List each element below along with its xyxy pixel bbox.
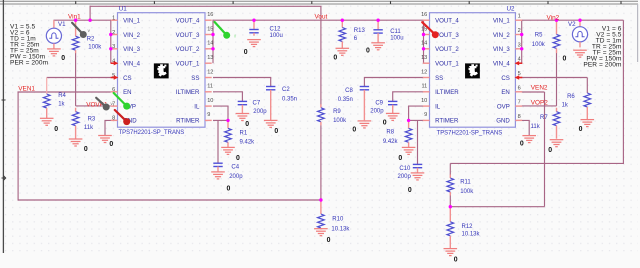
- svg-text:CS: CS: [501, 75, 509, 82]
- svg-text:R6: R6: [567, 94, 575, 100]
- svg-text:TPS7H2201-SP_TRANS: TPS7H2201-SP_TRANS: [437, 130, 503, 136]
- wire C4 tap: [217, 120, 219, 163]
- junction Vout C11: [376, 19, 379, 22]
- svg-text:VEN2: VEN2: [531, 85, 548, 92]
- svg-text:GND: GND: [496, 118, 510, 125]
- junction U2 EN divider node: [449, 205, 452, 208]
- wire U1 GND pin to ground: [105, 120, 118, 135]
- wire R11 R12 node to EN riser: [450, 206, 544, 208]
- svg-text:VOUT_3: VOUT_3: [176, 32, 200, 39]
- resistor R3: [72, 108, 79, 139]
- page frame left line: [2, 0, 4, 253]
- svg-text:ILTIMER: ILTIMER: [176, 89, 200, 96]
- resistor R4 bottom lead: [46, 108, 48, 118]
- page frame right partial line: [637, 4, 639, 62]
- V1 source parameter text block: [10, 23, 49, 66]
- svg-text:V2: V2: [568, 21, 576, 28]
- svg-text:VOUT_4: VOUT_4: [435, 18, 459, 25]
- svg-text:R10: R10: [332, 217, 344, 223]
- svg-text:0: 0: [244, 49, 248, 56]
- ground below C11: [366, 43, 385, 55]
- voltage probe at U2 VOUT_3: [422, 22, 439, 38]
- svg-text:100k: 100k: [460, 189, 474, 195]
- svg-text:V1: V1: [58, 21, 66, 28]
- op-amp U1 TPS7H2201-SP load switch: [111, 6, 214, 128]
- ground below V2: [563, 50, 587, 62]
- voltage source V2 symbol: [568, 20, 588, 47]
- svg-text:VIN_3: VIN_3: [493, 46, 511, 53]
- ground below V1: [47, 49, 65, 62]
- wire Vin2 drop right side: [622, 20, 624, 164]
- capacitor C7: [238, 101, 247, 113]
- resistor R7: [553, 108, 560, 139]
- capacitor C11: [373, 21, 382, 43]
- svg-text:8: 8: [112, 116, 115, 122]
- svg-text:0: 0: [333, 54, 337, 61]
- resistor R12: [447, 207, 454, 249]
- svg-text:i: i: [235, 34, 236, 39]
- svg-text:C10: C10: [399, 166, 411, 172]
- svg-text:EN: EN: [501, 89, 509, 96]
- svg-text:R11: R11: [460, 180, 471, 186]
- svg-text:R2: R2: [87, 36, 95, 42]
- svg-text:10: 10: [207, 98, 213, 104]
- svg-text:16: 16: [207, 12, 213, 18]
- resistor R6 bottom lead: [586, 107, 588, 120]
- ground below C7: [236, 114, 250, 129]
- svg-text:Vin2: Vin2: [547, 14, 560, 21]
- wire R11 column lower: [449, 196, 451, 208]
- ground below C10: [408, 173, 424, 194]
- resistor R13: [339, 21, 346, 49]
- svg-text:1k: 1k: [562, 102, 569, 108]
- current marker at U2 pin CS: [515, 75, 523, 79]
- svg-text:RTIMER: RTIMER: [176, 118, 200, 125]
- voltage probe at VOVP1: [96, 98, 113, 111]
- svg-text:1: 1: [518, 14, 521, 20]
- svg-text:0: 0: [520, 140, 524, 147]
- svg-text:C9: C9: [375, 101, 383, 107]
- svg-text:12: 12: [421, 69, 427, 75]
- svg-text:0: 0: [548, 147, 552, 154]
- ground below R4: [40, 118, 58, 133]
- junction U2 VIN bus pin2: [520, 33, 523, 36]
- svg-text:0: 0: [398, 155, 402, 162]
- svg-text:14: 14: [207, 41, 213, 47]
- current marker at U1 pin CS: [111, 75, 119, 79]
- wire Vin1 horizontal: [54, 19, 111, 21]
- wire R9 column vertical lower: [320, 125, 322, 200]
- svg-text:ILTIMER: ILTIMER: [435, 89, 459, 96]
- ground below C8: [352, 121, 371, 133]
- junction U1 RTIMER IL node: [226, 119, 229, 122]
- ground below R6: [579, 120, 595, 134]
- current marker at U1 pin VIN_4: [111, 61, 119, 65]
- svg-text:1: 1: [112, 16, 115, 22]
- resistor R5: [553, 20, 560, 53]
- svg-text:CS: CS: [123, 75, 131, 82]
- svg-text:U1: U1: [119, 6, 128, 13]
- svg-text:0: 0: [84, 146, 88, 153]
- svg-text:0: 0: [109, 141, 113, 148]
- svg-text:EN: EN: [123, 89, 131, 96]
- wire U2 GND pin to ground: [515, 120, 529, 135]
- svg-text:C4: C4: [231, 165, 239, 171]
- ground below C9: [383, 113, 400, 126]
- junction Vin1 riser: [88, 19, 91, 22]
- svg-text:12: 12: [207, 69, 213, 75]
- svg-text:VIN_2: VIN_2: [493, 32, 511, 39]
- svg-text:0.35n: 0.35n: [282, 96, 297, 102]
- svg-text:SS: SS: [191, 75, 199, 82]
- capacitor C2: [266, 87, 275, 121]
- wire VEN1 horizontal: [17, 91, 110, 93]
- svg-text:11: 11: [207, 84, 213, 90]
- ground at U1 GND pin: [98, 136, 113, 149]
- svg-text:C12: C12: [270, 27, 282, 33]
- frame tick marks: [2, 1, 622, 180]
- resistor R11: [447, 175, 454, 196]
- svg-text:VOP2: VOP2: [531, 100, 548, 107]
- svg-text:13: 13: [421, 55, 427, 61]
- junction Vin1 R2: [74, 19, 77, 22]
- wire EN divider tap long bottom: [18, 199, 321, 201]
- svg-text:RTIMER: RTIMER: [435, 118, 459, 125]
- ground below R8: [398, 147, 415, 162]
- svg-text:PER = 200m: PER = 200m: [10, 59, 49, 66]
- wire VOVP1: [76, 105, 111, 107]
- svg-text:VIN_4: VIN_4: [123, 61, 141, 68]
- svg-text:8: 8: [518, 114, 521, 120]
- svg-text:R5: R5: [535, 33, 543, 39]
- junction Vin2 V2: [578, 19, 581, 22]
- svg-text:IL: IL: [435, 103, 441, 110]
- ground below C2: [264, 120, 279, 135]
- svg-text:R8: R8: [386, 130, 394, 136]
- svg-text:11k: 11k: [84, 125, 94, 131]
- capacitor C8: [360, 87, 369, 121]
- svg-text:R9: R9: [333, 109, 341, 115]
- wire VEN1 drop: [17, 92, 19, 201]
- wire U2 EN divider feed: [450, 162, 624, 164]
- svg-text:OVP: OVP: [497, 103, 510, 110]
- wire R9 column vertical upper: [320, 6, 322, 104]
- wire U2 VOUT pin bus: [423, 20, 425, 64]
- svg-text:0: 0: [274, 128, 278, 135]
- wire R11 column upper: [449, 163, 451, 174]
- svg-text:0: 0: [563, 55, 567, 62]
- wire R5 bottom to VOP2: [556, 53, 558, 106]
- svg-text:200p: 200p: [253, 109, 267, 115]
- wire U2 VIN pin bus: [521, 20, 523, 64]
- wire R6 drop from CS: [586, 78, 588, 94]
- current marker at U2 pin VIN_4: [515, 61, 523, 65]
- junction Vout C12: [252, 19, 255, 22]
- V2 source parameter text block: [583, 25, 622, 68]
- wire U2 EN riser: [544, 92, 546, 207]
- junction U2 RTIMER IL node: [407, 119, 410, 122]
- svg-text:11: 11: [421, 84, 427, 90]
- svg-text:3: 3: [518, 42, 521, 48]
- ground below C12: [244, 40, 261, 56]
- svg-text:C11: C11: [390, 29, 401, 35]
- svg-text:100k: 100k: [532, 42, 546, 48]
- capacitor C9: [388, 101, 397, 113]
- svg-text:R7: R7: [540, 115, 548, 121]
- wire top rail Vin1 to R9 column: [90, 5, 322, 7]
- svg-text:U2: U2: [507, 6, 516, 13]
- wire U2 RTIMER: [409, 119, 424, 121]
- svg-text:9: 9: [424, 112, 427, 118]
- svg-text:9.42k: 9.42k: [383, 139, 399, 145]
- junction EN divider node: [319, 198, 322, 201]
- svg-text:0: 0: [327, 237, 331, 244]
- wire U2 ILTIMER to C9: [393, 92, 424, 102]
- wire U1 VIN pin bus: [110, 20, 112, 64]
- svg-text:VOUT_4: VOUT_4: [176, 18, 200, 25]
- voltage probe at U1 GND pin: [115, 110, 130, 125]
- junction U2 VIN bus pin3: [520, 47, 523, 50]
- wire VEN2: [522, 91, 545, 93]
- wire U2 IL down: [409, 106, 424, 120]
- ground below R13: [333, 48, 349, 61]
- wire VOP2: [522, 105, 557, 107]
- voltage probe at U1 EN pin: [114, 93, 131, 110]
- resistor R10: [318, 201, 325, 230]
- svg-text:VOUT_1: VOUT_1: [435, 61, 459, 68]
- svg-text:2: 2: [518, 28, 521, 34]
- svg-text:1k: 1k: [58, 102, 65, 108]
- svg-text:VOUT_2: VOUT_2: [176, 46, 200, 53]
- current probe at U1 VOUT: [215, 22, 236, 39]
- svg-text:0: 0: [227, 186, 231, 193]
- svg-text:R12: R12: [462, 224, 474, 230]
- voltage source V1 symbol: [46, 20, 66, 49]
- wire Vin2 horizontal: [522, 19, 624, 21]
- svg-text:R1: R1: [240, 130, 248, 136]
- svg-text:0: 0: [352, 126, 356, 133]
- resistor R6: [584, 93, 591, 107]
- svg-text:PER = 200m: PER = 200m: [583, 61, 622, 68]
- svg-text:VIN_1: VIN_1: [493, 18, 511, 25]
- svg-text:R3: R3: [88, 117, 96, 123]
- junction U2 VOUT bus pin14: [422, 47, 425, 50]
- wire Vin1 riser to top rail: [89, 6, 91, 21]
- svg-text:0: 0: [54, 126, 58, 133]
- svg-text:VOUT_1: VOUT_1: [176, 61, 200, 68]
- svg-text:Vin1: Vin1: [68, 13, 81, 20]
- resistor R9: [318, 104, 325, 125]
- svg-text:TPS7H2201-SP_TRANS: TPS7H2201-SP_TRANS: [119, 130, 185, 136]
- page frame top line: [0, 0, 638, 2]
- voltage probe at Vin1: [72, 23, 91, 38]
- svg-text:9: 9: [207, 112, 210, 118]
- ground below C4: [211, 172, 230, 193]
- resistor R1: [225, 121, 232, 148]
- svg-text:0: 0: [366, 48, 370, 55]
- svg-text:13: 13: [207, 55, 213, 61]
- ground below R1: [221, 147, 240, 162]
- wire Vout horizontal: [213, 19, 424, 21]
- junction Vout R13: [341, 19, 344, 22]
- ground below R10: [314, 229, 331, 244]
- svg-text:0: 0: [383, 120, 387, 127]
- wire U1 ILTIMER to C7: [213, 92, 242, 102]
- junction U1 VIN bus pin3: [109, 47, 112, 50]
- svg-text:16: 16: [421, 12, 427, 18]
- junction U1 VIN bus pin2: [109, 33, 112, 36]
- svg-text:6: 6: [518, 85, 521, 91]
- svg-text:R4: R4: [58, 93, 66, 99]
- svg-text:C2: C2: [282, 87, 290, 93]
- junction U1 VOUT bus pin15: [211, 33, 214, 36]
- capacitor C10: [413, 164, 422, 172]
- svg-text:VOUT_2: VOUT_2: [435, 46, 459, 53]
- svg-text:7: 7: [518, 100, 521, 106]
- svg-text:VIN_2: VIN_2: [123, 32, 141, 39]
- svg-text:C8: C8: [345, 88, 353, 94]
- ground below R3: [69, 139, 88, 153]
- svg-text:10.13k: 10.13k: [462, 232, 481, 238]
- svg-text:0: 0: [236, 155, 240, 162]
- svg-text:10: 10: [421, 98, 427, 104]
- resistor R4: [43, 94, 50, 108]
- svg-text:100u: 100u: [270, 33, 283, 39]
- junction U1 VOUT bus pin14: [211, 47, 214, 50]
- svg-text:VEN1: VEN1: [18, 85, 35, 92]
- svg-text:3: 3: [112, 44, 115, 50]
- svg-text:0: 0: [61, 55, 65, 62]
- wire C10 tap: [417, 120, 419, 164]
- resistor R8: [405, 121, 412, 148]
- ground at U2 GND pin: [520, 136, 536, 148]
- op-amp U2 TPS7H2201-SP load switch: [421, 6, 522, 128]
- svg-text:VIN_3: VIN_3: [123, 46, 141, 53]
- resistor R4 lead from CS wire: [46, 78, 48, 95]
- ground below R12: [444, 249, 458, 264]
- svg-text:10.13k: 10.13k: [331, 226, 350, 232]
- wire U1 VOUT pin bus: [212, 20, 214, 64]
- wire U1 IL down: [213, 106, 228, 120]
- wire U1 RTIMER: [213, 119, 228, 121]
- svg-text:100k: 100k: [88, 44, 102, 50]
- svg-text:0: 0: [408, 187, 412, 194]
- capacitor C4: [213, 163, 222, 171]
- wire U1 CS: [47, 77, 111, 79]
- svg-text:R13: R13: [354, 28, 366, 34]
- junction U2 VOUT bus pin15: [422, 33, 425, 36]
- svg-text:C7: C7: [253, 100, 261, 106]
- svg-text:0.35n: 0.35n: [338, 97, 353, 103]
- wire U2 SS to C8: [364, 78, 423, 87]
- svg-text:200p: 200p: [397, 174, 411, 180]
- wire U1 SS to C2: [213, 78, 271, 87]
- svg-text:100u: 100u: [390, 35, 403, 41]
- svg-text:0: 0: [454, 256, 458, 263]
- wire U2 CS: [522, 77, 588, 79]
- svg-text:11k: 11k: [531, 124, 541, 130]
- resistor R2: [72, 20, 79, 53]
- svg-text:9.42k: 9.42k: [240, 139, 256, 145]
- svg-text:SS: SS: [435, 75, 443, 82]
- svg-text:15: 15: [207, 26, 213, 32]
- capacitor C12: [249, 21, 258, 36]
- svg-text:IL: IL: [194, 103, 200, 110]
- svg-text:14: 14: [421, 41, 427, 47]
- svg-text:100k: 100k: [333, 118, 347, 124]
- wire R2 bottom to VOVP1: [75, 53, 77, 106]
- junction Vin2 R5: [555, 19, 558, 22]
- svg-text:0: 0: [579, 126, 583, 133]
- svg-text:200p: 200p: [229, 174, 243, 180]
- svg-text:200p: 200p: [370, 108, 384, 114]
- svg-text:0: 0: [245, 121, 249, 128]
- ground below R7: [548, 140, 563, 154]
- svg-text:2: 2: [112, 30, 115, 36]
- svg-text:VIN_1: VIN_1: [123, 18, 141, 25]
- svg-text:VIN_4: VIN_4: [493, 61, 511, 68]
- svg-text:Vout: Vout: [315, 14, 328, 21]
